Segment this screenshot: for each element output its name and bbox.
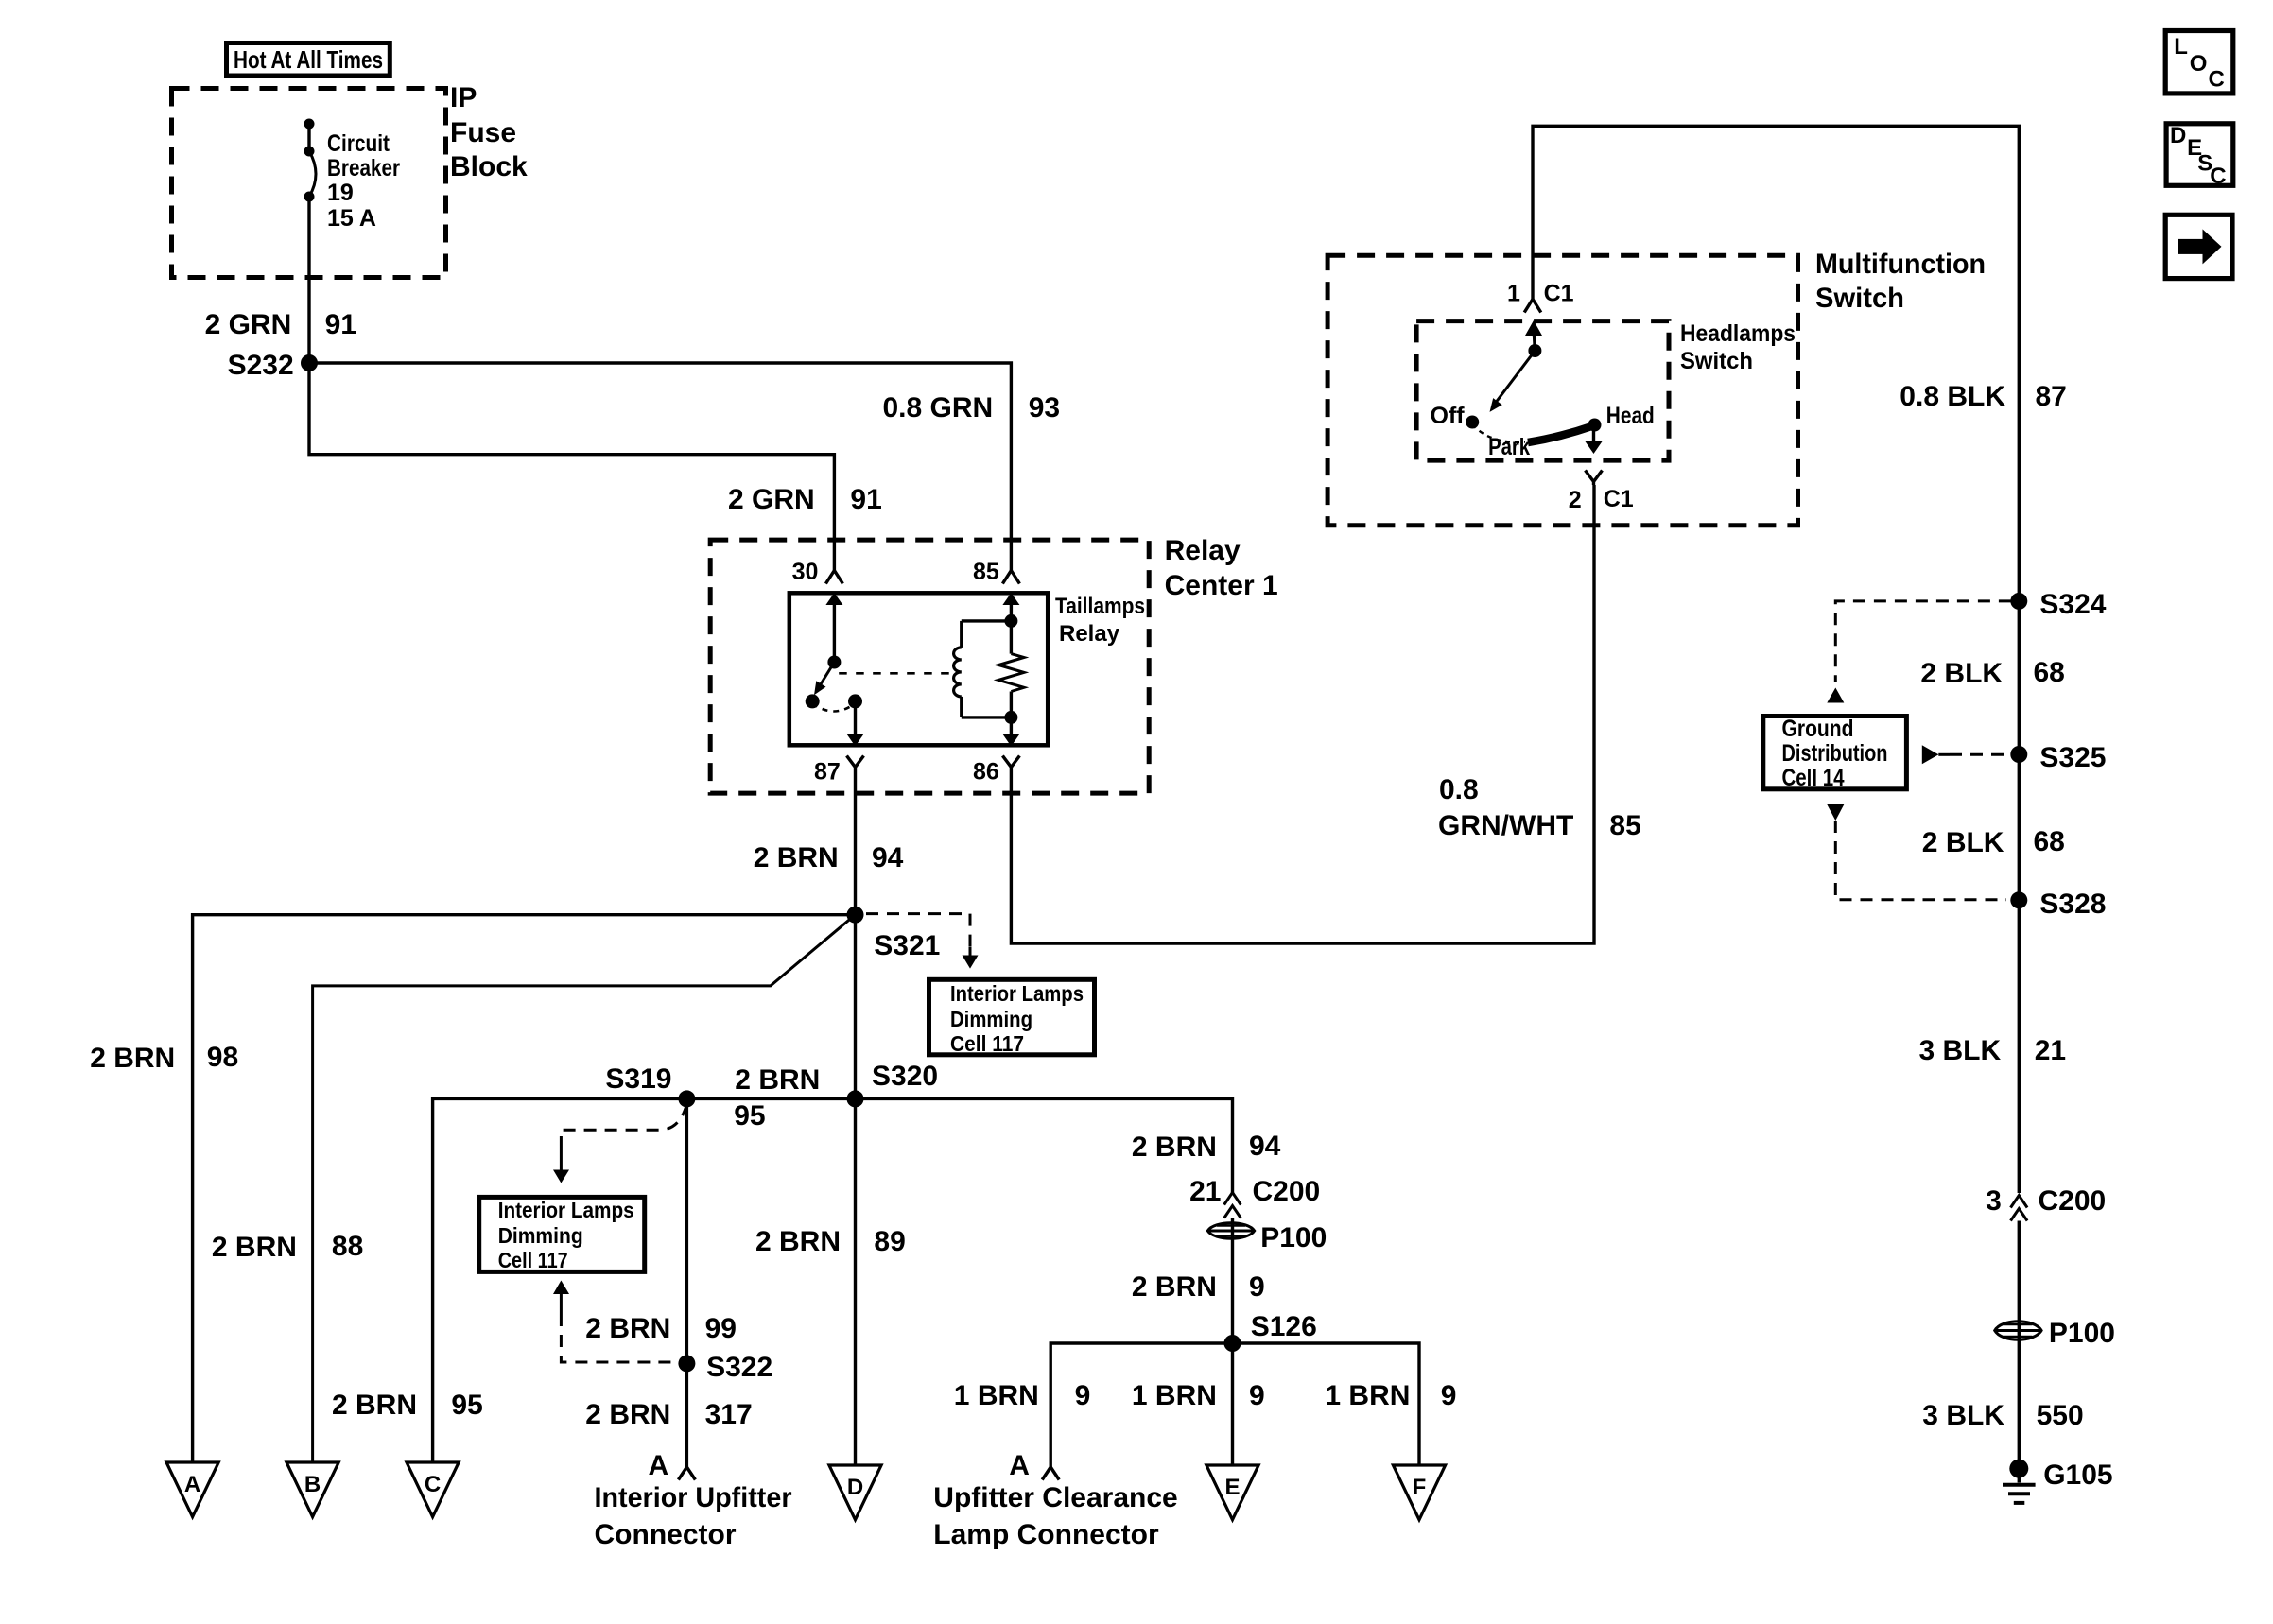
svg-text:2 BRN: 2 BRN xyxy=(585,1399,670,1430)
svg-text:9: 9 xyxy=(1075,1380,1091,1411)
Hot At All Times label box xyxy=(227,43,390,77)
svg-text:S232: S232 xyxy=(228,350,294,381)
wire: S320 to ground connector D (2 BRN 89) xyxy=(854,1098,857,1465)
svg-text:30: 30 xyxy=(792,559,819,585)
splice S321 xyxy=(847,907,941,961)
svg-text:C200: C200 xyxy=(2039,1185,2107,1217)
svg-text:Relay: Relay xyxy=(1165,535,1241,566)
svg-text:Interior Lamps: Interior Lamps xyxy=(950,981,1084,1006)
svg-text:2 BLK: 2 BLK xyxy=(1922,827,2004,858)
svg-text:Center 1: Center 1 xyxy=(1165,570,1278,601)
headlamps switch position labels xyxy=(1431,403,1655,460)
svg-text:68: 68 xyxy=(2034,657,2065,688)
svg-text:94: 94 xyxy=(1249,1131,1281,1162)
splice S126 xyxy=(1224,1311,1317,1352)
splice S319 xyxy=(605,1063,695,1107)
svg-text:O: O xyxy=(2190,51,2208,77)
wire: S232 to relay pin 30 (2 GRN 91) xyxy=(309,363,834,570)
svg-text:S126: S126 xyxy=(1251,1311,1317,1342)
svg-text:Circuit: Circuit xyxy=(327,130,390,157)
label 2 BRN 89 xyxy=(755,1226,906,1257)
relay switch 30 to 87 xyxy=(806,593,864,747)
Taillamps Relay box xyxy=(789,593,1048,745)
svg-text:Cell 117: Cell 117 xyxy=(498,1248,568,1272)
svg-text:C: C xyxy=(2209,67,2225,93)
svg-text:D: D xyxy=(2170,123,2186,148)
svg-text:S319: S319 xyxy=(605,1063,671,1095)
svg-text:2 BRN: 2 BRN xyxy=(90,1043,175,1074)
label 3 BLK 21 xyxy=(1919,1035,2067,1066)
wire: S325 to S328 (2 BLK 68) xyxy=(2018,754,2021,900)
ground G105 xyxy=(2003,1460,2113,1503)
svg-text:9: 9 xyxy=(1441,1380,1457,1411)
relay coil xyxy=(954,614,1018,724)
label 1 BRN 9 (left) xyxy=(954,1380,1090,1411)
svg-text:2 BRN: 2 BRN xyxy=(735,1064,820,1096)
wire: battery feed across top to headlamps switch pin 1 and right bus (0.8 BLK 87) xyxy=(1533,126,2019,601)
svg-text:Distribution: Distribution xyxy=(1782,740,1888,767)
wire: S126 to ground connector E (1 BRN 9) xyxy=(1231,1343,1234,1465)
svg-text:2 BRN: 2 BRN xyxy=(755,1226,841,1257)
wire: S126 to Upfitter Clearance Lamp Connector A (1 BRN 9) xyxy=(1042,1343,1232,1480)
wire: S319 to ground connector C (2 BRN 95) xyxy=(433,1098,687,1462)
label 2 BRN 98 xyxy=(90,1042,238,1074)
inline connector C200 (branch) xyxy=(1224,1193,1241,1218)
wire: relay pin 86 to headlamps switch pin 2 (0.8 GRN/WHT 85) xyxy=(1011,485,1594,943)
svg-text:2 BRN: 2 BRN xyxy=(212,1232,297,1263)
label 2 BRN 95 (connector C) xyxy=(332,1390,483,1421)
svg-text:GRN/WHT: GRN/WHT xyxy=(1438,810,1573,841)
svg-text:9: 9 xyxy=(1249,1271,1265,1303)
Relay Center 1 dashed box xyxy=(710,540,1149,793)
svg-text:Lamp Connector: Lamp Connector xyxy=(933,1519,1159,1550)
svg-text:2 GRN: 2 GRN xyxy=(728,484,815,515)
Interior Upfitter Connector label xyxy=(595,1450,792,1550)
svg-text:Breaker: Breaker xyxy=(327,155,400,181)
circuit breaker labels xyxy=(327,130,400,232)
svg-text:S322: S322 xyxy=(706,1352,772,1383)
splice S320 xyxy=(847,1061,939,1107)
wire: C200 to ground G105 through P100 (3 BLK 550) xyxy=(2018,1221,2021,1469)
IP Fuse Block label xyxy=(450,82,528,182)
Interior Lamps Dimming Cell 117 box (left) xyxy=(479,1197,645,1272)
svg-text:2: 2 xyxy=(1569,487,1582,513)
svg-text:Hot At All Times: Hot At All Times xyxy=(234,45,383,74)
ground connector triangle E xyxy=(1206,1465,1258,1520)
svg-text:2 GRN: 2 GRN xyxy=(205,309,292,340)
svg-text:550: 550 xyxy=(2037,1400,2084,1431)
splice S328 xyxy=(2010,889,2106,920)
label 2 GRN 91 (relay coil feed) xyxy=(728,484,882,515)
splice S232 xyxy=(228,350,318,381)
svg-text:C: C xyxy=(2210,164,2226,189)
relay pin 30 connector xyxy=(792,559,843,585)
svg-text:85: 85 xyxy=(973,559,999,585)
svg-text:94: 94 xyxy=(872,842,904,873)
svg-text:S328: S328 xyxy=(2039,889,2106,920)
relay actuation dashed link xyxy=(839,672,950,675)
svg-text:Ground: Ground xyxy=(1782,716,1854,742)
svg-text:89: 89 xyxy=(874,1226,905,1257)
svg-text:L: L xyxy=(2174,34,2188,60)
svg-text:Off: Off xyxy=(1431,403,1466,429)
svg-text:87: 87 xyxy=(2036,381,2067,412)
wire: S328 to connector C200 (3 BLK 21) xyxy=(2018,900,2021,1193)
label 0.8 GRN 93 xyxy=(883,392,1061,423)
svg-text:0.8 BLK: 0.8 BLK xyxy=(1900,381,2005,412)
DESC legend box xyxy=(2166,123,2233,189)
svg-text:85: 85 xyxy=(1609,810,1640,841)
svg-text:A: A xyxy=(649,1450,669,1481)
svg-text:Relay: Relay xyxy=(1059,621,1120,647)
label 2 BLK 68 (lower) xyxy=(1922,826,2065,858)
wire: S321 to splice S320 xyxy=(854,915,857,1099)
Interior Lamps Dimming Cell 117 box (right) xyxy=(929,979,1095,1056)
svg-text:S324: S324 xyxy=(2039,589,2106,620)
label 2 BLK 68 (upper) xyxy=(1920,657,2064,689)
Headlamps Switch label xyxy=(1680,320,1796,374)
label 2 BRN 99 xyxy=(585,1313,737,1344)
svg-text:21: 21 xyxy=(2035,1035,2066,1066)
wire: S321 to ground connector A (2 BRN 98) xyxy=(193,915,856,1462)
svg-text:Multifunction: Multifunction xyxy=(1815,249,1986,280)
svg-text:F: F xyxy=(1413,1475,1427,1500)
label 2 BRN 88 xyxy=(212,1231,363,1263)
relay coil resistor xyxy=(998,593,1024,747)
wire: S320 to S319 (2 BRN 95) xyxy=(686,1097,855,1100)
dashed reference: Interior Lamps Dimming to splice S322 (2 BRN 99) xyxy=(553,1281,677,1363)
svg-text:B: B xyxy=(304,1472,321,1497)
label 2 BRN 317 xyxy=(585,1399,752,1430)
svg-text:Dimming: Dimming xyxy=(498,1223,583,1248)
dashed reference: Ground Distribution to S328 xyxy=(1827,804,2006,900)
svg-text:98: 98 xyxy=(207,1042,238,1073)
svg-text:1 BRN: 1 BRN xyxy=(1325,1380,1410,1411)
svg-text:C200: C200 xyxy=(1253,1176,1321,1207)
svg-text:0.8: 0.8 xyxy=(1439,774,1479,805)
svg-text:95: 95 xyxy=(734,1100,765,1132)
svg-text:G105: G105 xyxy=(2043,1460,2112,1491)
svg-text:91: 91 xyxy=(325,309,356,340)
svg-text:88: 88 xyxy=(332,1231,363,1262)
svg-text:Cell 117: Cell 117 xyxy=(950,1031,1024,1056)
relay pin 85 connector xyxy=(973,559,1019,585)
ground connector triangle A xyxy=(166,1462,218,1517)
dashed reference: S324 to Ground Distribution xyxy=(1827,601,2011,703)
headlamps switch pin 1 connector C1 xyxy=(1507,281,1574,313)
grommet P100 (right bus) xyxy=(1995,1318,2115,1349)
svg-text:2 BRN: 2 BRN xyxy=(1132,1132,1217,1163)
inline connector C200 (right bus) xyxy=(1986,1185,2106,1221)
dashed reference: S321 to Interior Lamps Dimming Cell 117 xyxy=(866,914,979,969)
splice S324 xyxy=(2010,589,2106,620)
forward arrow legend box xyxy=(2165,215,2232,278)
Multifunction Switch dashed box xyxy=(1327,255,1797,526)
relay pin 87 connector xyxy=(814,756,864,786)
svg-text:317: 317 xyxy=(705,1399,753,1430)
label 2 BRN 9 xyxy=(1132,1271,1265,1303)
svg-text:0.8 GRN: 0.8 GRN xyxy=(883,392,994,423)
svg-text:C1: C1 xyxy=(1604,486,1634,512)
Relay Center 1 label xyxy=(1165,535,1278,601)
svg-text:Switch: Switch xyxy=(1815,283,1904,314)
svg-text:3 BLK: 3 BLK xyxy=(1922,1400,2004,1431)
wire: S324 to S325 (2 BLK 68) xyxy=(2018,601,2021,754)
svg-text:1 BRN: 1 BRN xyxy=(1132,1380,1217,1411)
wire: S319 to Interior Upfitter Connector A (2 BRN 317) xyxy=(678,1098,695,1479)
svg-text:Fuse: Fuse xyxy=(450,117,516,148)
svg-text:87: 87 xyxy=(814,759,841,786)
svg-text:Headlamps: Headlamps xyxy=(1680,320,1796,347)
label 0.8 GRN/WHT 85 xyxy=(1438,774,1641,841)
grommet P100 (branch) xyxy=(1207,1222,1327,1253)
svg-text:C1: C1 xyxy=(1544,281,1574,307)
label 0.8 BLK 87 xyxy=(1900,381,2067,412)
Headlamps Switch dashed box xyxy=(1416,321,1669,461)
wire: S232 to relay pin 85 (0.8 GRN 93) xyxy=(309,363,1011,570)
svg-text:68: 68 xyxy=(2034,826,2065,857)
svg-text:Connector: Connector xyxy=(595,1519,737,1550)
wire: relay pin 87 to splice S321 (2 BRN 94) xyxy=(854,771,857,915)
wire: S321 to ground connector B (2 BRN 88) xyxy=(313,915,856,1462)
svg-text:Park: Park xyxy=(1488,434,1530,460)
svg-text:A: A xyxy=(1009,1450,1030,1481)
svg-text:3: 3 xyxy=(1986,1185,2002,1217)
svg-text:Head: Head xyxy=(1606,403,1655,429)
LOC legend box xyxy=(2165,31,2233,94)
svg-text:E: E xyxy=(1224,1475,1240,1500)
svg-text:1: 1 xyxy=(1507,281,1520,307)
svg-text:P100: P100 xyxy=(2049,1318,2115,1349)
svg-text:2 BRN: 2 BRN xyxy=(754,842,839,873)
svg-text:Upfitter Clearance: Upfitter Clearance xyxy=(933,1482,1177,1513)
headlamps switch pin 2 connector C1 xyxy=(1569,425,1634,513)
label 2 BRN 95 (stacked) xyxy=(734,1064,820,1132)
svg-text:IP: IP xyxy=(450,82,477,113)
wire: S320 to connector C200 (2 BRN 94) xyxy=(856,1098,1233,1193)
svg-text:99: 99 xyxy=(705,1313,737,1344)
Taillamps Relay label xyxy=(1055,594,1145,647)
Multifunction Switch label xyxy=(1815,249,1986,314)
svg-text:95: 95 xyxy=(451,1390,482,1421)
Upfitter Clearance Lamp Connector label xyxy=(933,1450,1177,1550)
svg-text:3 BLK: 3 BLK xyxy=(1919,1035,2002,1066)
label 1 BRN 9 (middle) xyxy=(1132,1380,1265,1411)
label 1 BRN 9 (right) xyxy=(1325,1380,1456,1411)
svg-text:2 BRN: 2 BRN xyxy=(1132,1271,1217,1303)
splice S322 xyxy=(678,1352,772,1383)
Ground Distribution Cell 14 box xyxy=(1763,716,1907,791)
svg-text:Switch: Switch xyxy=(1680,348,1753,374)
ground connector triangle D xyxy=(829,1465,881,1520)
svg-text:S321: S321 xyxy=(874,930,940,961)
wire: C200 to splice S126 through P100 (2 BRN 9) xyxy=(1231,1218,1234,1344)
svg-text:S325: S325 xyxy=(2039,742,2106,773)
ground connector triangle C xyxy=(407,1462,459,1517)
headlamps switch mechanism xyxy=(1466,320,1601,442)
svg-text:C: C xyxy=(425,1472,441,1497)
svg-text:Block: Block xyxy=(450,151,528,182)
svg-text:2 BRN: 2 BRN xyxy=(332,1390,417,1421)
svg-text:Cell 14: Cell 14 xyxy=(1782,765,1845,791)
ground connector triangle B xyxy=(286,1462,338,1517)
svg-text:S320: S320 xyxy=(872,1061,938,1092)
dashed reference: Ground Distribution to S325 xyxy=(1922,745,2006,764)
label 3 BLK 550 xyxy=(1922,1400,2083,1431)
relay pin 86 connector xyxy=(973,756,1019,786)
svg-text:9: 9 xyxy=(1249,1380,1265,1411)
svg-text:91: 91 xyxy=(850,484,881,515)
svg-text:D: D xyxy=(847,1475,863,1500)
wire: circuit breaker to splice S232 xyxy=(307,197,310,363)
svg-text:93: 93 xyxy=(1029,392,1060,423)
svg-text:21: 21 xyxy=(1189,1176,1221,1207)
svg-text:A: A xyxy=(184,1472,200,1497)
svg-text:Interior Upfitter: Interior Upfitter xyxy=(595,1482,792,1513)
svg-text:Dimming: Dimming xyxy=(950,1007,1032,1031)
label 2 BRN 94 / 21 C200 xyxy=(1132,1131,1320,1207)
svg-text:P100: P100 xyxy=(1260,1222,1327,1253)
svg-text:2 BRN: 2 BRN xyxy=(585,1313,670,1344)
circuit breaker 19 (15A) xyxy=(304,119,317,202)
svg-text:86: 86 xyxy=(973,759,999,786)
label 2 BRN 94 xyxy=(754,842,904,873)
ground connector triangle F xyxy=(1393,1465,1445,1520)
svg-text:19: 19 xyxy=(327,180,354,206)
svg-text:Interior Lamps: Interior Lamps xyxy=(498,1198,634,1222)
svg-text:1 BRN: 1 BRN xyxy=(954,1380,1039,1411)
IP Fuse Block dashed box xyxy=(172,89,446,278)
svg-text:Taillamps: Taillamps xyxy=(1055,594,1145,619)
svg-text:2 BLK: 2 BLK xyxy=(1920,658,2003,689)
dashed reference: S319 to Interior Lamps Dimming Cell 117 xyxy=(553,1104,686,1183)
wire: S126 to ground connector F (1 BRN 9) xyxy=(1233,1343,1420,1465)
label 2 GRN 91 (fuse output) xyxy=(205,309,356,340)
splice S325 xyxy=(2010,742,2106,773)
svg-text:15 A: 15 A xyxy=(327,205,376,232)
